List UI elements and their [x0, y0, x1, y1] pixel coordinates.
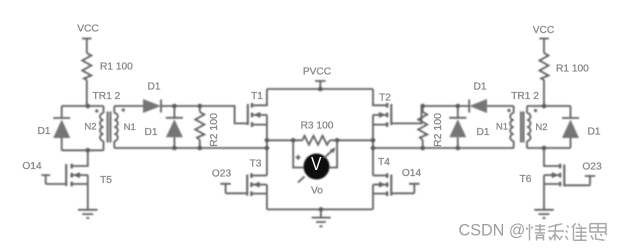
svg-text:D1: D1	[476, 127, 489, 138]
node (clamp diode D1 right top)	[456, 104, 461, 109]
terminal O14 (left)	[41, 175, 66, 184]
ground (bridge)	[312, 209, 331, 226]
diode D1 (left clamp, vertical)	[166, 106, 183, 148]
transistor T6	[544, 148, 564, 210]
node (T5 drain junction)	[86, 148, 91, 153]
node (gate return left)	[265, 146, 270, 151]
svg-text:CSDN @: CSDN @	[459, 221, 526, 239]
wire left bridge mid column	[266, 125, 268, 176]
transformer TR1 right winding N2	[527, 106, 531, 148]
phase dot N2	[95, 109, 98, 112]
transformer TR1 left winding N1	[114, 106, 118, 148]
svg-text:PVCC: PVCC	[303, 67, 331, 78]
watermark CSDN	[459, 221, 607, 240]
wire bottom rail right outer loop	[527, 147, 571, 149]
svg-text:R1 100: R1 100	[100, 62, 133, 73]
phase dot N1 (right)	[507, 109, 510, 112]
node (R3 left lead)	[291, 138, 296, 143]
node (R2 top)	[198, 104, 203, 109]
voltmeter V (Vo probe)	[293, 140, 337, 182]
diode D1 (right series, horizontal)	[469, 99, 514, 113]
node (clamp diode D1 bottom)	[172, 146, 177, 151]
svg-text:R2 100: R2 100	[208, 113, 220, 147]
svg-text:O23: O23	[582, 162, 602, 173]
transformer TR1 core	[108, 112, 111, 143]
transformer TR1 right winding N1	[510, 106, 513, 148]
wire bridge bottom rail	[267, 208, 373, 210]
transistor T2	[373, 89, 422, 127]
svg-text:V: V	[311, 154, 322, 174]
wire right gate-driver bottom rail	[373, 147, 514, 149]
transistor T1	[248, 89, 267, 127]
wire bridge top rail	[267, 88, 373, 90]
resistor R3	[267, 136, 373, 145]
transformer TR1 left winding N2	[100, 106, 103, 150]
wire top rail left outer loop	[62, 105, 104, 107]
wire N1 top rail	[114, 105, 143, 107]
diode D1 (right clamp, vertical)	[449, 106, 466, 148]
resistor R2 (left)	[195, 106, 204, 148]
wire bottom rail left outer loop	[62, 149, 104, 151]
resistor R1	[82, 53, 91, 106]
svg-text:D1: D1	[37, 126, 50, 137]
node (clamp diode D1 right bottom)	[456, 146, 461, 151]
svg-text:T4: T4	[378, 157, 390, 168]
svg-text:T2: T2	[379, 93, 391, 104]
wire top rail right outer loop	[527, 105, 571, 107]
svg-text:T3: T3	[250, 159, 262, 170]
wire right bridge mid column	[372, 125, 374, 176]
terminal O23 (right)	[564, 176, 595, 185]
node VCC (right)	[539, 39, 549, 54]
node (bridge ground)	[319, 207, 324, 212]
resistor R1 (right)	[540, 53, 549, 106]
diode D1 (left outer)	[53, 106, 70, 150]
phase dot N1	[122, 108, 125, 111]
ground (T6 source)	[534, 210, 554, 218]
wire N1 bottom rail	[114, 147, 267, 149]
diode D1 (right outer)	[562, 106, 579, 148]
transistor T5	[66, 150, 88, 209]
node (R3 right)	[371, 138, 376, 143]
svg-text:N1: N1	[124, 122, 136, 133]
node (R1 right junction)	[542, 104, 547, 109]
node (R2 right top)	[420, 104, 425, 109]
svg-text:D1: D1	[147, 82, 160, 93]
transistor T4	[373, 173, 391, 209]
svg-text:T5: T5	[100, 175, 112, 186]
svg-text:N1: N1	[496, 122, 508, 133]
svg-text:TR1 2: TR1 2	[511, 91, 539, 102]
node VCC (left)	[82, 39, 92, 54]
svg-text:O23: O23	[212, 169, 232, 180]
node (R2 right bottom)	[420, 146, 425, 151]
node (clamp diode D1 top)	[172, 104, 177, 109]
resistor R2 (right)	[418, 106, 427, 148]
transformer TR1 right core	[521, 112, 524, 143]
svg-text:N2: N2	[84, 122, 96, 133]
svg-text:R3 100: R3 100	[301, 121, 334, 132]
svg-text:O14: O14	[22, 161, 42, 172]
svg-text:VCC: VCC	[77, 24, 99, 35]
svg-text:VCC: VCC	[533, 25, 555, 36]
svg-text:O14: O14	[402, 168, 422, 179]
svg-text:N2: N2	[535, 122, 547, 133]
svg-text:Vo: Vo	[311, 186, 323, 197]
diode D1 (left series, horizontal)	[143, 99, 161, 113]
node (R3 left)	[265, 138, 270, 143]
svg-text:D1: D1	[587, 127, 600, 138]
svg-text:T1: T1	[251, 91, 263, 102]
node (R3 right lead)	[335, 138, 340, 143]
terminal O14 (right)	[391, 184, 419, 194]
ground (T5 source)	[78, 210, 98, 218]
svg-text:T6: T6	[520, 174, 532, 185]
svg-text:TR1 2: TR1 2	[93, 91, 121, 102]
wire right gate-driver top rail	[422, 105, 470, 107]
phase dot N2 (right)	[534, 109, 537, 112]
wire to node	[161, 105, 200, 107]
svg-text:D1: D1	[473, 82, 486, 93]
node (T6 drain junction)	[542, 146, 547, 151]
node PVCC	[315, 81, 326, 91]
svg-text:R1 100: R1 100	[556, 64, 589, 75]
node (gate return right)	[371, 146, 376, 151]
terminal O23 (left)	[220, 184, 247, 194]
transistor T3	[247, 173, 267, 209]
wire gate feed T1	[200, 106, 248, 123]
svg-text:D1: D1	[144, 127, 157, 138]
node A (dot R1/TR1)	[86, 104, 91, 109]
node (R2 bottom)	[198, 146, 203, 151]
svg-text:R2 100: R2 100	[432, 113, 444, 147]
